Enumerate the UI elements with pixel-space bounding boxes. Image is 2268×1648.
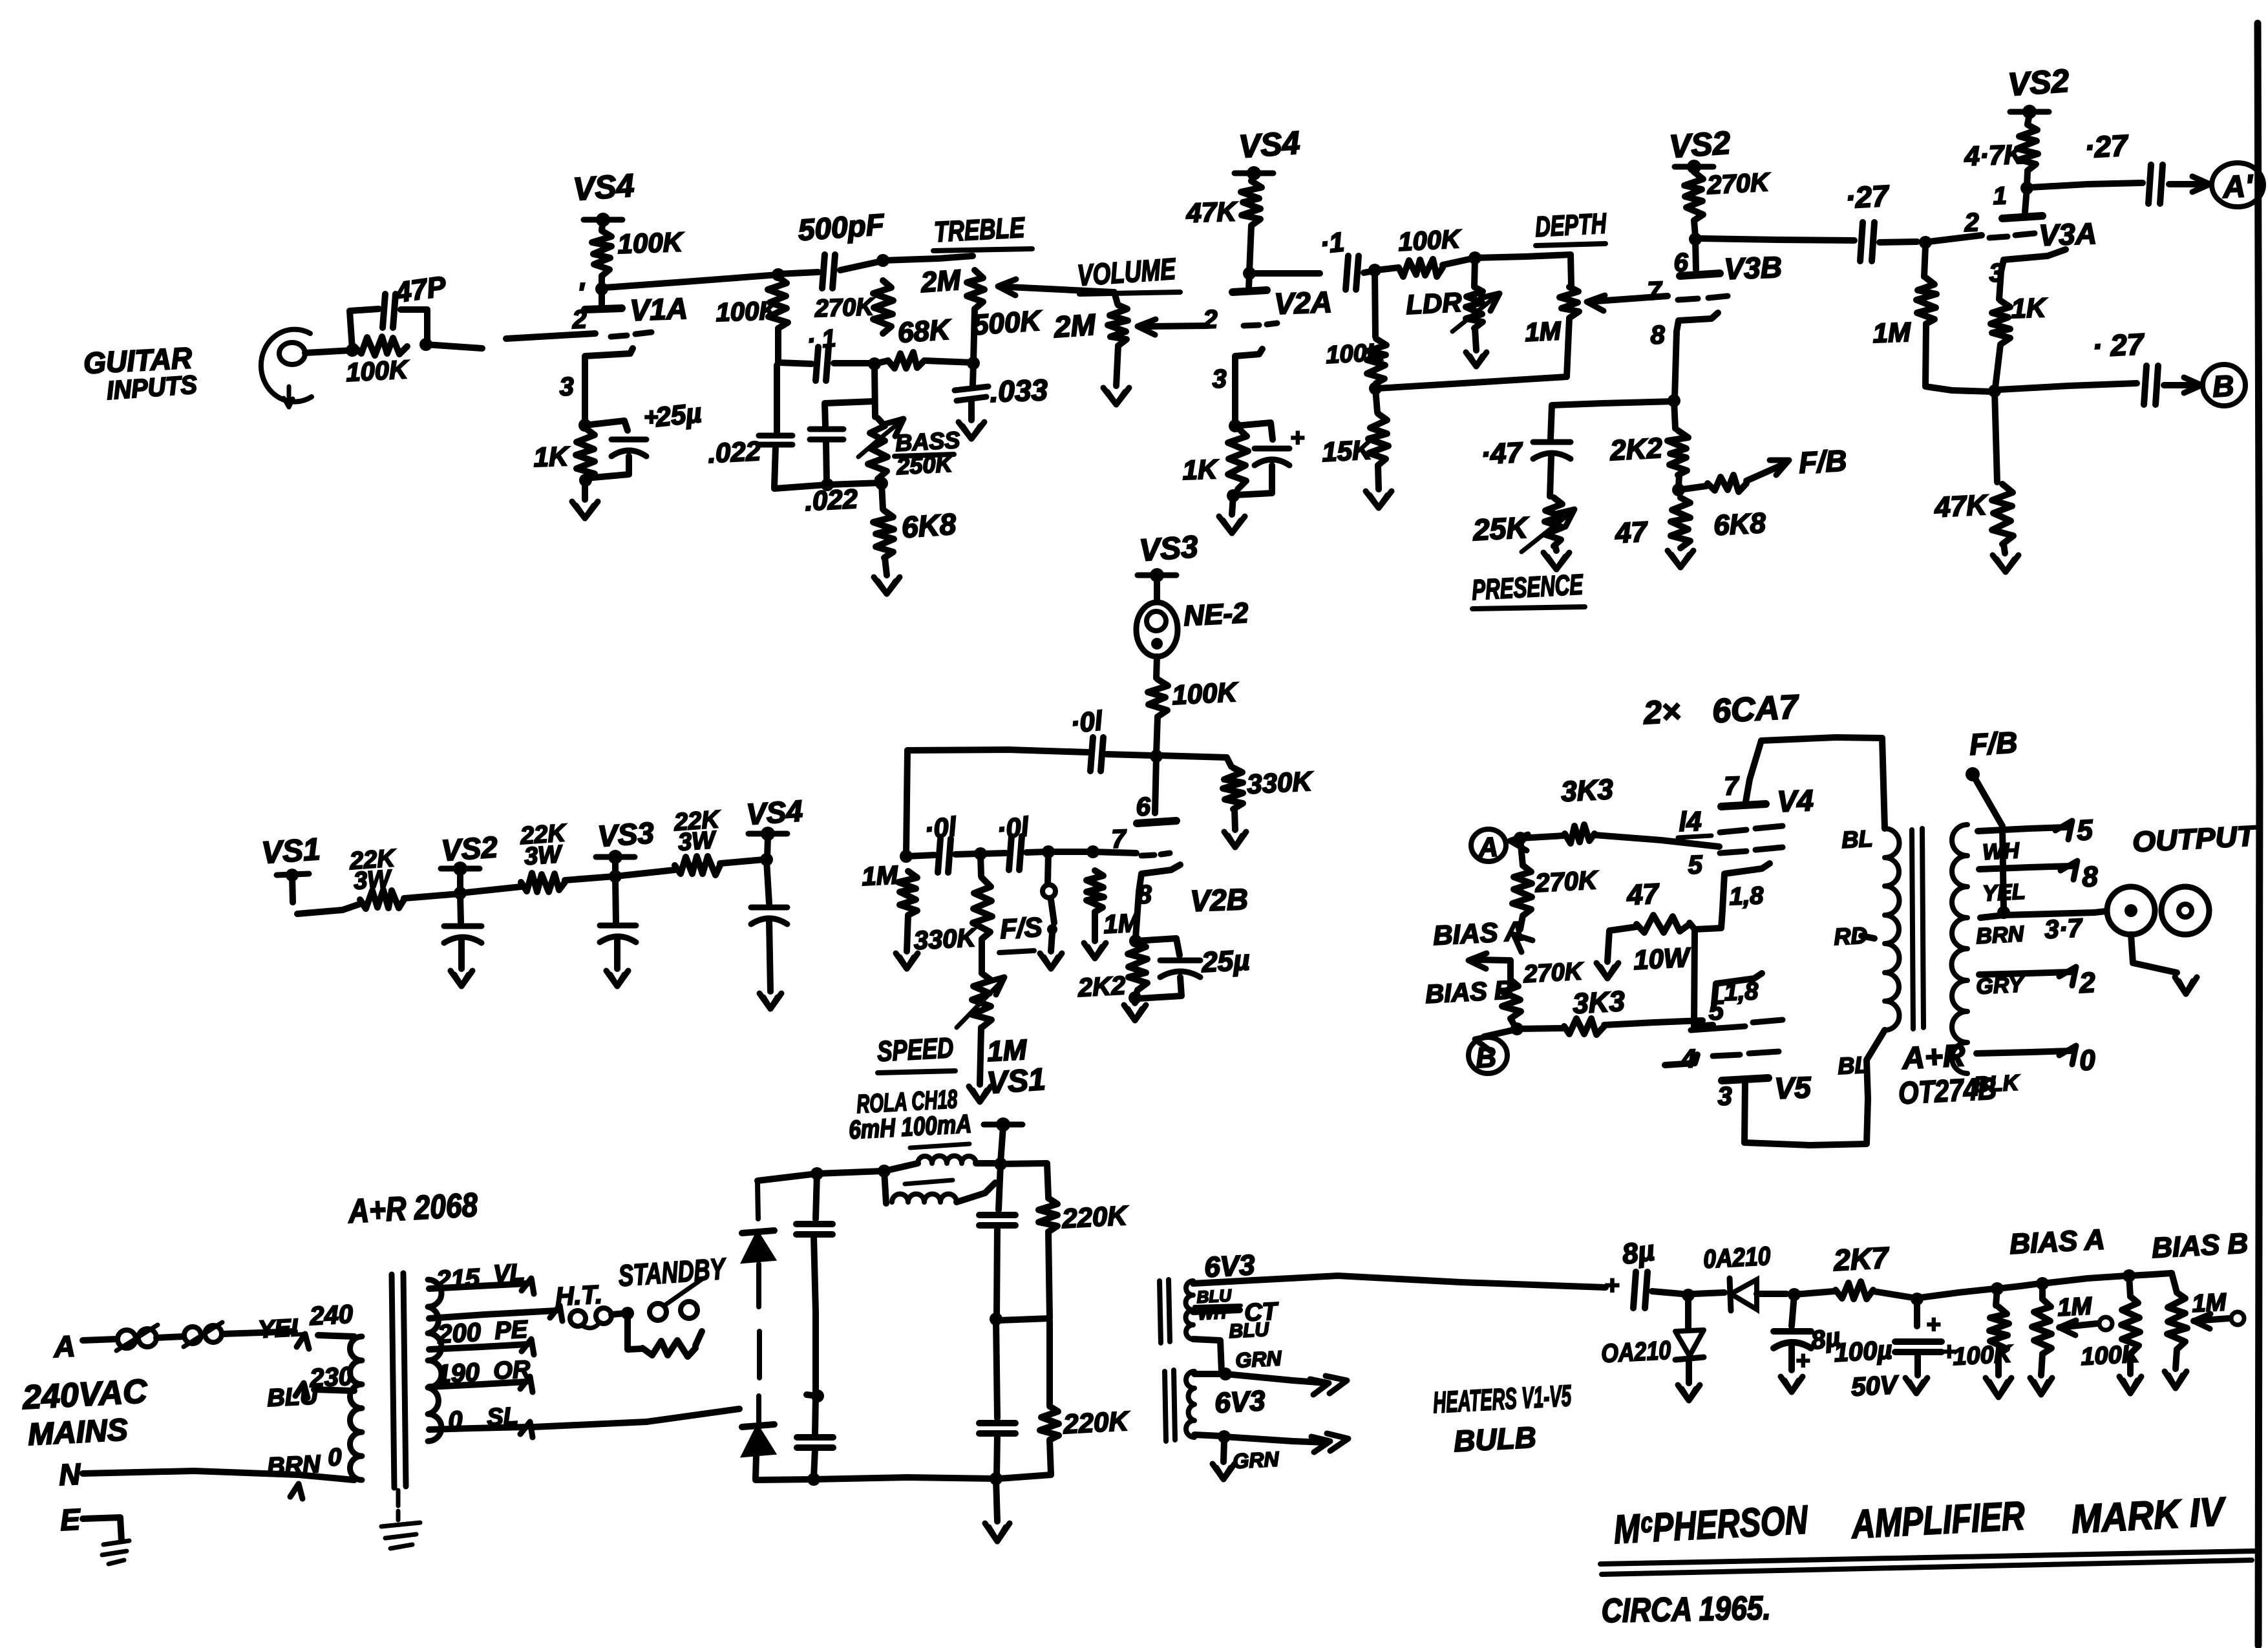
node doubler top: [811, 1167, 823, 1180]
mains terminal E: [59, 1502, 82, 1537]
svg-text:BULB: BULB: [1453, 1420, 1537, 1458]
node V2A plate: [1243, 267, 1256, 280]
node VS4: [760, 853, 773, 866]
node osc mid: [974, 847, 987, 860]
ground (8u #2): [1781, 1377, 1803, 1392]
label V2A: [1274, 285, 1333, 321]
resistor 6K8 (feedback): [1679, 475, 1746, 492]
label 6V3 lower: [1214, 1385, 1266, 1419]
svg-text:100K: 100K: [1952, 1340, 2013, 1371]
wire 4.7K to node: [2027, 171, 2028, 186]
wire SL to rectifier: [534, 1409, 739, 1427]
label 270K biasA: [1534, 866, 1600, 898]
triode V3B cathode: [1677, 313, 1718, 332]
node bias 1: [1682, 1289, 1695, 1302]
svg-text:VS3: VS3: [1138, 530, 1200, 568]
triode V2A grid (dashes): [1244, 323, 1277, 326]
wire bias rail 3: [2042, 1276, 2126, 1284]
feedback pickoff F/B: [1966, 725, 2019, 911]
label 1M speed: [986, 1034, 1028, 1068]
supply terminal VS1 (chain): [260, 832, 321, 902]
svg-text:6: 6: [1136, 792, 1152, 821]
resistor 330K (osc right): [1160, 755, 1243, 809]
svg-text:+: +: [1926, 1311, 1940, 1338]
resistor 100K R1 (input): [354, 337, 407, 355]
node bias 6: [2123, 1269, 2136, 1282]
pin 7 label V2B: [1111, 825, 1128, 854]
label 270K tone: [814, 293, 876, 322]
svg-text:OUTPUT: OUTPUT: [2132, 820, 2258, 858]
input jack J1: [261, 330, 312, 407]
svg-text:VS1: VS1: [260, 832, 321, 871]
OT secondary winding: [1952, 825, 1968, 1073]
label .022 #1: [707, 436, 761, 469]
node A (circled, output): [1471, 829, 1506, 863]
wire 1M down to B node: [1925, 324, 1992, 392]
label 25u V2B: [1200, 944, 1251, 978]
node tone stack input: [772, 268, 785, 281]
node bias A junction: [1514, 832, 1527, 845]
node V2B plate: [1150, 750, 1163, 763]
label BIAS B: [1425, 976, 1514, 1009]
mains terminal N: [58, 1457, 82, 1492]
mains primary winding: [350, 1336, 363, 1480]
label 2M volume: [1052, 308, 1097, 344]
wire LDR to gnd: [1475, 328, 1476, 350]
label YEL 240: [257, 1300, 354, 1349]
svg-text:AMPLIFIER: AMPLIFIER: [1850, 1494, 2026, 1547]
wire C4 to bottom node: [997, 1435, 997, 1477]
label BLU WH CT: [1194, 1285, 1280, 1342]
resistor 2K2: [1668, 401, 1688, 475]
wire VS3 to 22K3: [615, 870, 675, 876]
label 100K osc: [1171, 677, 1239, 710]
arrow GRN upper: [1225, 1374, 1347, 1395]
wire top rail to choke: [817, 1171, 883, 1174]
pin 3 label V5: [1717, 1082, 1733, 1111]
wire V2B cathode down: [1136, 892, 1139, 938]
wire speed to gnd: [980, 1028, 981, 1084]
ground (330K): [1224, 832, 1246, 847]
wire A to fuse: [83, 1339, 116, 1340]
capacitor .01 #2: [906, 839, 977, 872]
svg-text:1,8: 1,8: [1724, 978, 1759, 1006]
svg-text:A+R: A+R: [1901, 1039, 1966, 1076]
ground (F/S): [1040, 953, 1062, 969]
wire 1K to B node: [1995, 344, 2000, 388]
wire 1M to gnd: [907, 915, 908, 951]
wire 6K8 to gnd: [885, 558, 887, 575]
pin 5 label V5: [1708, 995, 1725, 1026]
svg-text:270K: 270K: [814, 293, 876, 322]
label 8u bias: [1620, 1234, 1657, 1270]
doubler cap leg lower: [815, 1396, 816, 1433]
svg-text:BIAS B: BIAS B: [1425, 976, 1514, 1009]
label 6mH 100mA: [848, 1110, 972, 1145]
svg-text:1K: 1K: [533, 441, 571, 472]
potentiometer BASS 250K: [858, 418, 904, 479]
capacitor filter C4: [979, 1423, 1015, 1433]
label 220K #1: [1061, 1200, 1129, 1234]
svg-text:6CA7: 6CA7: [1712, 688, 1801, 730]
svg-text:1K: 1K: [2011, 292, 2048, 324]
node A' (circled): [2212, 163, 2263, 207]
svg-text:VS1: VS1: [986, 1062, 1046, 1101]
resistor 100K (V1A plate load): [592, 231, 611, 276]
svg-text:220K: 220K: [1061, 1200, 1129, 1234]
svg-text:LDR: LDR: [1405, 286, 1463, 319]
svg-text:GRN: GRN: [1235, 1346, 1282, 1372]
svg-text:BLU: BLU: [266, 1382, 319, 1412]
svg-text:2K2: 2K2: [1077, 971, 1127, 1002]
svg-text:F/B: F/B: [1798, 443, 1848, 480]
node bulb bottom: [1194, 1430, 1231, 1443]
label ROLA CH18: [856, 1085, 959, 1119]
label 100K plate: [617, 226, 685, 259]
svg-text:25µ: 25µ: [1200, 944, 1251, 978]
label YEL: [1982, 880, 2026, 906]
label V3B: [1724, 250, 1783, 286]
svg-text:50V: 50V: [1850, 1371, 1900, 1402]
heater core upper: [1160, 1280, 1170, 1343]
label V3A: [2039, 217, 2097, 252]
label 2K2: [1609, 432, 1664, 467]
potentiometer SPEED 1M: [957, 939, 1004, 1028]
capacitor .022 #1 (bass): [759, 365, 792, 487]
node V2A cathode bottom: [1227, 489, 1240, 502]
svg-text:250K: 250K: [895, 450, 955, 480]
svg-text:V4: V4: [1777, 783, 1814, 818]
ground (V1A cathode): [572, 502, 598, 518]
svg-text:VS2: VS2: [1668, 125, 1732, 165]
label 1M osc1: [861, 861, 899, 891]
resistor 47 (presence): [1671, 498, 1690, 548]
svg-text:.022: .022: [707, 436, 761, 469]
OT core: [1912, 829, 1924, 1029]
arrow to A: [2169, 176, 2210, 192]
capacitor .022 #2 (bass): [810, 401, 874, 483]
svg-text:5: 5: [2076, 814, 2094, 847]
pin 3 label V3A: [1989, 259, 2004, 288]
label 47: [1614, 516, 1649, 549]
ground (VS4 cap): [759, 993, 781, 1009]
label 22K 3W #3: [673, 806, 722, 856]
resistor 3K3 (V4 grid): [1520, 825, 1595, 843]
svg-text:220K: 220K: [1062, 1406, 1130, 1439]
heater winding 6.3V bulb: [1186, 1371, 1194, 1437]
choke coil lower: [884, 1171, 995, 1203]
secondary tap 3.7 to jack: [1980, 913, 2094, 918]
svg-text:1K: 1K: [1182, 454, 1220, 485]
node V3B cathode: [1668, 394, 1680, 407]
capacitor 100uF 50V: [1895, 1299, 1956, 1375]
label 15K: [1321, 434, 1374, 467]
sec tap 0 SL: [429, 1403, 533, 1437]
capacitor .01 #1 (osc top): [907, 737, 1153, 771]
doubler bottom rail: [756, 1477, 995, 1480]
resistor 47K (V2A plate load): [1241, 181, 1262, 226]
sec tap HT: [429, 1280, 603, 1321]
resistor 2K7: [1794, 1282, 1873, 1299]
wire N to winding: [83, 1471, 354, 1480]
svg-text:NE-2: NE-2: [1183, 597, 1249, 632]
ground (VS3 cap): [606, 971, 628, 986]
resistor 270K (tone): [873, 280, 893, 333]
label NE-2: [1183, 597, 1249, 632]
svg-text:BL: BL: [1837, 1051, 1869, 1079]
svg-text:TREBLE: TREBLE: [933, 212, 1026, 248]
node 100K-15K: [1369, 382, 1382, 395]
heater core lower: [1165, 1370, 1175, 1441]
doubler cap leg mid: [814, 1236, 816, 1393]
wire bias rail 4: [2129, 1273, 2172, 1276]
svg-text:V5: V5: [1774, 1070, 1812, 1105]
feedback arrow F/B: [1746, 460, 1789, 481]
label BASS 250K: [895, 427, 960, 480]
wire tone mid down: [874, 365, 875, 417]
resistor 1M (osc #1): [898, 871, 917, 915]
svg-text:PRESENCE: PRESENCE: [1471, 569, 1584, 606]
node cap leg mid: [807, 1389, 824, 1402]
ground (15K): [1366, 491, 1392, 508]
wire to VS2 node: [404, 894, 459, 898]
label DEPTH: [1534, 207, 1607, 246]
wire V1A plate to tone stack: [605, 275, 778, 288]
svg-text:1: 1: [1993, 182, 2008, 210]
wire V2A cathode down: [1232, 374, 1238, 424]
bias A arrow: [1514, 916, 1532, 952]
label 100u 50V: [1833, 1336, 1900, 1402]
diode OA210 (shunt): [1675, 1295, 1704, 1383]
secondary tap 8: [1979, 861, 2099, 893]
node bass pot bottom: [875, 477, 888, 490]
resistor 1K (V2A cathode): [1228, 428, 1248, 489]
wire fuse to switch: [156, 1336, 184, 1338]
LDR (light dependent resistor): [1452, 258, 1500, 332]
pin 1 tick V1A: [577, 277, 585, 309]
ground (OA210): [1678, 1385, 1700, 1400]
svg-text:A': A': [2221, 169, 2254, 205]
ground (LDR): [1466, 352, 1487, 366]
label 47P: [393, 270, 449, 309]
svg-text:2×: 2×: [1642, 693, 1682, 731]
switch (mains): [184, 1322, 222, 1347]
label 1K V3A: [2011, 292, 2048, 324]
wire NE-2 to 100K: [1156, 657, 1157, 678]
wire to plate node: [599, 276, 605, 288]
svg-text:100K: 100K: [1325, 339, 1386, 369]
triode V3B grid (dashes): [1678, 296, 1728, 300]
svg-text:·0l: ·0l: [923, 811, 959, 845]
resistor 3K3 (V5 grid): [1517, 1019, 1604, 1035]
wire depth box top: [1475, 255, 1571, 258]
secondary tap 2: [1979, 967, 2096, 999]
heater lower tap wire: [1193, 1339, 1222, 1371]
label 1M biasA: [2057, 1293, 2093, 1322]
capacitor VS2 decoupling: [444, 894, 482, 969]
label BL bottom: [1837, 1051, 1869, 1079]
svg-text:·27: ·27: [2084, 128, 2130, 164]
svg-text:240: 240: [308, 1300, 354, 1331]
svg-text:1M: 1M: [1103, 909, 1141, 939]
wire mid to 68K: [874, 361, 888, 364]
wire switch to 240 tap: [222, 1331, 295, 1334]
label 1M grid: [1103, 909, 1141, 939]
label 22K 3W #2: [519, 819, 568, 871]
node .1-100K junction: [1368, 264, 1381, 277]
triode V2B grid (dashes): [1141, 853, 1170, 856]
svg-text:BRN: BRN: [1975, 922, 2025, 949]
label 100K biasB: [2080, 1340, 2141, 1371]
wire 270K to node: [1694, 220, 1695, 237]
wire osc left down: [906, 750, 907, 854]
node bias 3: [1911, 1293, 1924, 1305]
ground (100K biasB): [2119, 1354, 2141, 1393]
wire 2K7 to node3: [1873, 1291, 1913, 1298]
svg-text:VS3: VS3: [597, 816, 655, 853]
pin 2 label V2A: [1202, 305, 1218, 334]
pentode V5 grid dashes: [1753, 1020, 1783, 1022]
svg-text:.033: .033: [990, 373, 1049, 408]
label 22K 3W #1: [348, 845, 397, 895]
ground (1M osc): [896, 953, 918, 969]
wire V4 plate to OT top: [1761, 737, 1882, 741]
diode D1 (upper): [742, 1231, 774, 1262]
wire bulb to gnd: [1224, 1440, 1224, 1462]
node osc grid: [1042, 845, 1055, 858]
svg-text:0: 0: [2079, 1044, 2097, 1077]
capacitor 500pF (treble cap): [778, 255, 882, 288]
ground (1M grid): [1084, 943, 1106, 958]
svg-text:5: 5: [1688, 850, 1704, 880]
switch HT: [570, 1308, 611, 1328]
label WH: [1982, 838, 2020, 865]
label A+R OT274B: [1898, 1039, 1998, 1111]
ground (47): [1668, 551, 1693, 567]
switch F/S: [1043, 852, 1057, 951]
label 47 cath: [1626, 878, 1661, 911]
label VOLUME: [1076, 251, 1180, 294]
svg-text:E: E: [59, 1502, 82, 1537]
wire 100K to node: [1156, 717, 1158, 754]
triode V1A grid (dashes): [611, 332, 652, 337]
ground (filter): [985, 1523, 1010, 1541]
label .022 #2: [804, 483, 858, 516]
label 2x 6CA7: [1642, 688, 1801, 731]
capacitor .1 (V2A coupling): [1253, 256, 1374, 290]
wire V3B plate to .27: [1700, 238, 1854, 240]
resistor 4.7K (V3A plate load): [2017, 125, 2038, 171]
wire to .27 B: [1998, 383, 2137, 390]
label .1 tone: [806, 325, 838, 355]
svg-text:BIAS A: BIAS A: [1432, 916, 1525, 951]
capacitor .27 (to A): [2148, 165, 2163, 204]
resistor 22K 3W #1: [360, 890, 404, 909]
svg-text:25K: 25K: [1472, 510, 1531, 547]
ground (1M biasB): [2165, 1349, 2187, 1388]
svg-text:CIRCA 1965.: CIRCA 1965.: [1601, 1589, 1771, 1630]
triode V2B plate: [1137, 756, 1176, 823]
capacitor 8uF bias (series): [1604, 1271, 1682, 1308]
heater CT tap: [1193, 1310, 1240, 1312]
svg-text:GRY: GRY: [1975, 972, 2026, 999]
label 100K depth: [1397, 225, 1463, 257]
label BRN: [1975, 922, 2025, 949]
svg-text:VS4: VS4: [745, 794, 803, 831]
svg-text:100K: 100K: [1171, 677, 1239, 710]
wire 3K3 to V4 grid: [1595, 835, 1719, 847]
svg-text:47K: 47K: [1185, 196, 1238, 228]
label 2M treble: [919, 264, 962, 299]
resistor 47 10W (cathode): [1607, 915, 1695, 962]
ground (47K): [1993, 544, 2019, 572]
label 10W: [1633, 942, 1692, 975]
label 1K V1A: [533, 441, 571, 472]
output jack: [2107, 887, 2209, 935]
resistor 1K (V1A cathode): [576, 428, 595, 481]
wire 330K to gnd: [1235, 809, 1235, 830]
supply node VS2 (V3A): [2007, 63, 2070, 124]
label 330K #2: [913, 924, 979, 955]
node filter mid: [990, 1313, 1002, 1326]
secondary tap 0: [1977, 1044, 2096, 1077]
potentiometer 1M bias B: [2167, 1273, 2187, 1349]
heater winding 6.3V CT: [1186, 1281, 1194, 1339]
svg-text:0A210: 0A210: [1702, 1242, 1771, 1274]
label 3K3 V5: [1572, 986, 1626, 1020]
triode V3A plate: [2002, 188, 2042, 218]
svg-text:1M: 1M: [1872, 317, 1912, 348]
capacitor filter C3: [979, 1215, 1015, 1225]
svg-text:6V3: 6V3: [1214, 1385, 1266, 1419]
wire depth box bottom: [1377, 377, 1567, 388]
volume wiper arrow: [1138, 319, 1207, 335]
svg-text:2: 2: [1202, 305, 1218, 334]
pentode V5 screen dashes: [1713, 1051, 1779, 1056]
pentode V4 screen dashes: [1720, 826, 1783, 832]
capacitor 25uF (V2A bypass): [1235, 423, 1289, 495]
resistor 100K series (depth): [1377, 259, 1472, 277]
svg-text:8: 8: [2081, 861, 2099, 893]
label 100K lower: [1325, 339, 1386, 369]
node 2K2 bottom: [1129, 990, 1141, 1004]
wire volume pot to gnd: [1116, 346, 1118, 386]
svg-text:500K: 500K: [971, 305, 1044, 341]
svg-text:l4: l4: [1679, 806, 1702, 837]
label A+R 2068: [346, 1187, 479, 1231]
label PRESENCE: [1471, 569, 1585, 609]
capacitor 8uF bias #2: [1774, 1294, 1811, 1370]
node V3A cathode bottom: [1988, 385, 2001, 397]
wire mid down to C4: [996, 1319, 997, 1418]
resistor 330K (speed top): [973, 854, 992, 939]
svg-text:VS2: VS2: [440, 830, 499, 867]
node mid tone: [868, 357, 881, 370]
pentode V4 grid dashes: [1720, 847, 1783, 853]
node B (circled, output): [1468, 1037, 1507, 1074]
svg-text:B: B: [2212, 368, 2235, 403]
node V3B plate: [1689, 233, 1702, 246]
wire cathode to .47: [1552, 401, 1674, 405]
ground (100uF): [1905, 1378, 1927, 1393]
svg-text:330K: 330K: [913, 924, 979, 955]
node V1A plate: [595, 282, 608, 295]
capacitor doubler C2: [797, 1437, 833, 1448]
svg-text:6K8: 6K8: [1713, 507, 1767, 542]
svg-text:3W: 3W: [524, 841, 564, 871]
pentode V5 cathode: [1714, 973, 1762, 1004]
svg-text:1M: 1M: [1524, 317, 1562, 347]
